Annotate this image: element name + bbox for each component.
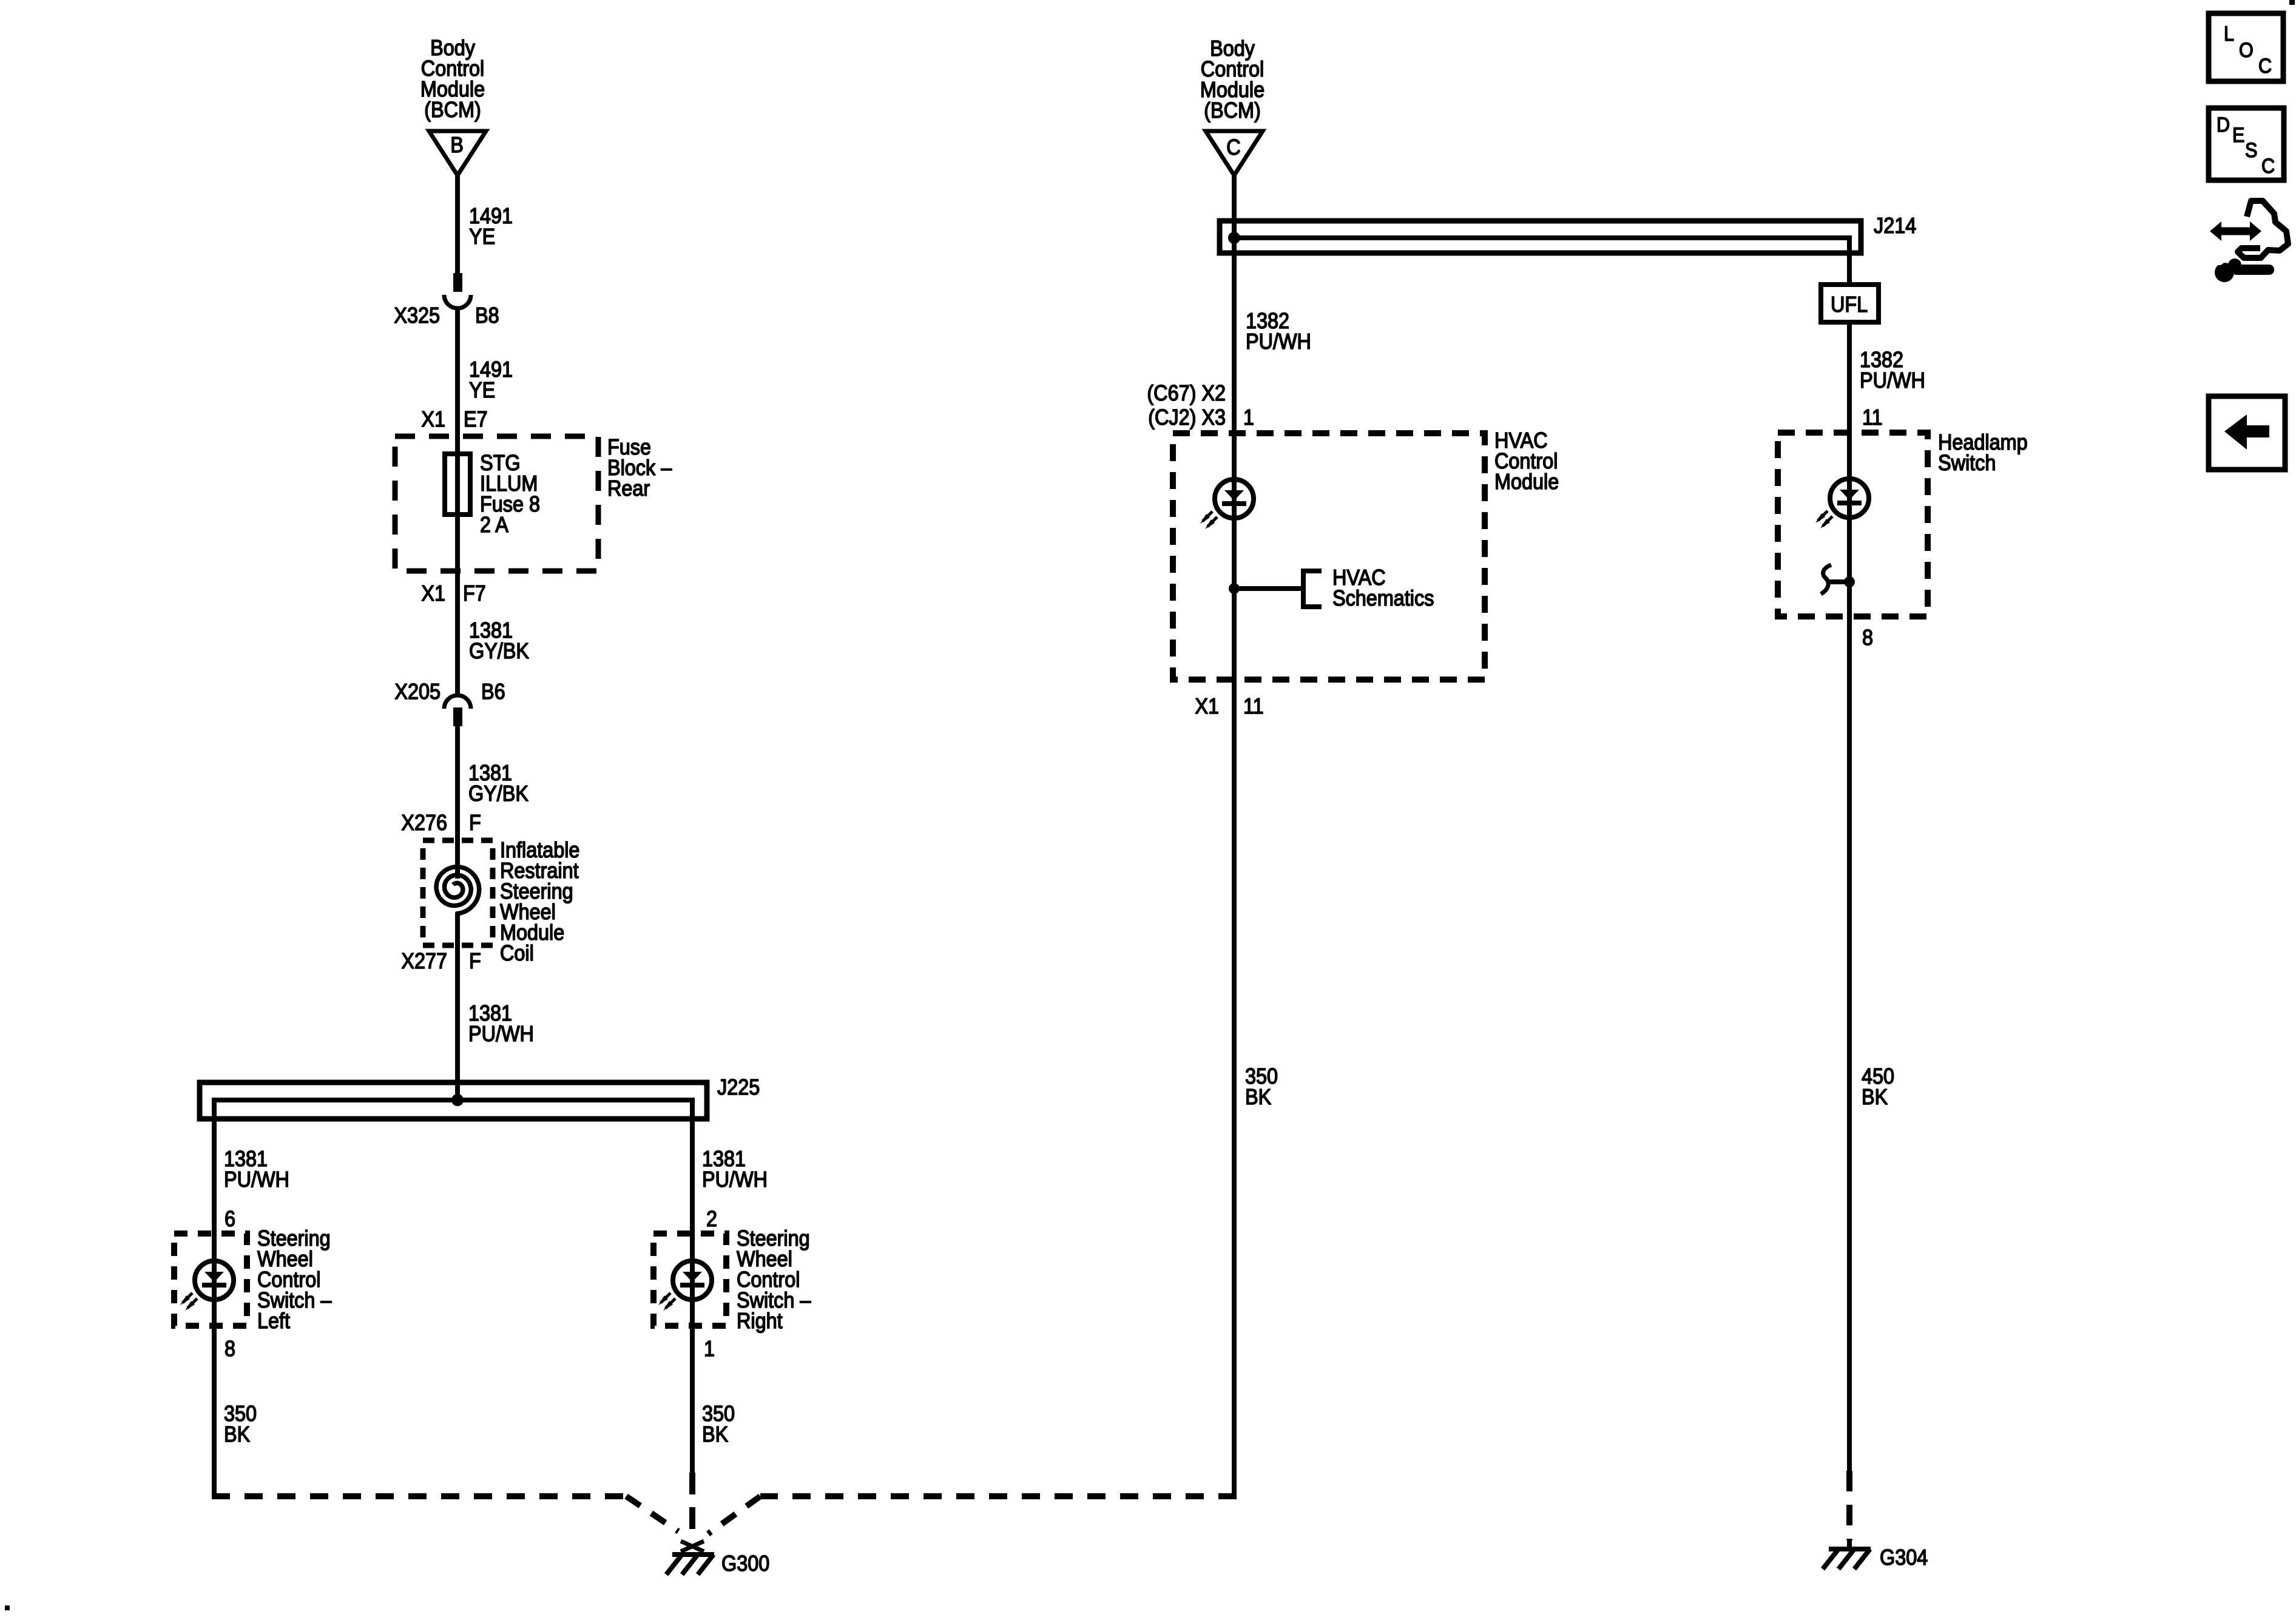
svg-text:F7: F7 [463,581,486,606]
BCM connector triangle B [429,131,486,175]
svg-text:C: C [2261,155,2275,178]
svg-text:(CJ2) X3: (CJ2) X3 [1148,405,1226,430]
dashed ground wire HVAC to G300 [760,1493,1237,1499]
headlamp switch dashed box [1778,433,1928,616]
icon LOC box [2209,13,2283,81]
clockspring coil spiral [436,867,479,914]
svg-text:X325: X325 [394,303,440,328]
svg-text:UFL: UFL [1831,292,1868,317]
wire through left switch [212,1234,217,1496]
wire 1491 YE from X325 to fuse block [455,308,460,454]
inflatable restraint steering wheel module coil dashed box [423,840,493,945]
LED indicator HVAC [1200,479,1254,529]
svg-text:8: 8 [1862,626,1873,650]
svg-text:G304: G304 [1880,1545,1928,1570]
ground G300 [666,1541,714,1575]
svg-text:C: C [1226,135,1240,160]
HVAC control module dashed box [1173,433,1485,680]
svg-text:F: F [469,811,481,835]
steering wheel control switch left dashed box [174,1234,247,1326]
svg-text:X1: X1 [421,581,445,606]
in-line connector X325 pin B8 [444,273,471,308]
icon back arrow box [2209,396,2285,470]
UFL fuse box [1821,285,1879,322]
page mark bottom left [5,1605,10,1610]
wire UFL to headlamp switch [1847,322,1852,433]
svg-text:J214: J214 [1874,214,1916,238]
wire 1381 GY/BK fuse to X205 [455,515,460,695]
svg-text:E7: E7 [464,407,488,431]
svg-text:11: 11 [1243,694,1264,718]
svg-text:L: L [2224,22,2234,46]
svg-text:G300: G300 [721,1551,769,1576]
dashed ground wire from left switch to G300 [212,1493,626,1499]
svg-text:S: S [2245,139,2257,162]
wire from BCM C to J214 [1232,175,1237,433]
svg-text:11: 11 [1862,405,1883,430]
svg-text:2: 2 [706,1207,717,1231]
svg-text:1: 1 [704,1337,715,1361]
wire to HVAC schematics bracket [1234,586,1302,591]
wire through coil box [455,913,460,1100]
svg-text:B6: B6 [481,680,505,704]
svg-text:X276: X276 [401,811,447,835]
in-line connector X205 pin B6 [444,695,471,726]
svg-text:X1: X1 [421,407,445,431]
svg-text:O: O [2239,39,2254,62]
LED indicator headlamp switch [1815,479,1869,528]
dashed ground wire right switch to G300 [689,1473,695,1535]
svg-text:X205: X205 [394,680,441,704]
steering wheel control switch right dashed box [653,1234,726,1326]
wire 1381 GY/BK X205 to coil [455,726,460,879]
ground G304 [1823,1539,1871,1569]
svg-text:6: 6 [225,1207,235,1231]
wire through HVAC module down to ground bus [1232,433,1237,1496]
icon DESC box [2209,108,2284,180]
svg-text:J225: J225 [717,1075,760,1099]
wire through right switch [690,1234,695,1473]
junction dot J225 [451,1094,464,1106]
svg-text:8: 8 [225,1337,235,1361]
svg-text:D: D [2217,113,2230,137]
splice pack J214 outer box [1220,221,1861,253]
svg-text:C: C [2258,55,2272,78]
svg-text:(C67) X2: (C67) X2 [1147,381,1226,405]
svg-text:X277: X277 [401,949,447,973]
wire 1491 YE from BCM B to X325 [455,175,460,274]
svg-text:E: E [2232,124,2244,147]
LED indicator right switch [658,1261,712,1311]
icon harness repair (arrows and wrench) [2210,201,2288,282]
svg-text:B: B [450,133,464,157]
rheostat wiper headlamp switch [1821,565,1855,594]
fuse STG ILLUM Fuse 8 2A [445,454,470,515]
dashed ground wire headlamp to G304 [1846,1471,1852,1540]
svg-text:F: F [469,949,481,973]
wire through headlamp switch down [1847,433,1852,1471]
page mark top right [2289,0,2295,5]
junction dot HVAC [1229,583,1240,594]
fuse block rear dashed box [395,436,598,571]
splice pack J214 bus bar [1234,238,1849,285]
splice pack J225 bus bar [214,1100,692,1234]
svg-text:B8: B8 [475,303,499,328]
bracket HVAC schematics [1303,571,1322,607]
svg-text:1: 1 [1243,405,1254,430]
junction dot J214 [1228,232,1240,244]
splice pack J225 outer box [200,1082,707,1119]
svg-text:X1: X1 [1195,694,1219,718]
BCM connector triangle C [1206,131,1263,175]
LED indicator left switch [180,1261,234,1311]
